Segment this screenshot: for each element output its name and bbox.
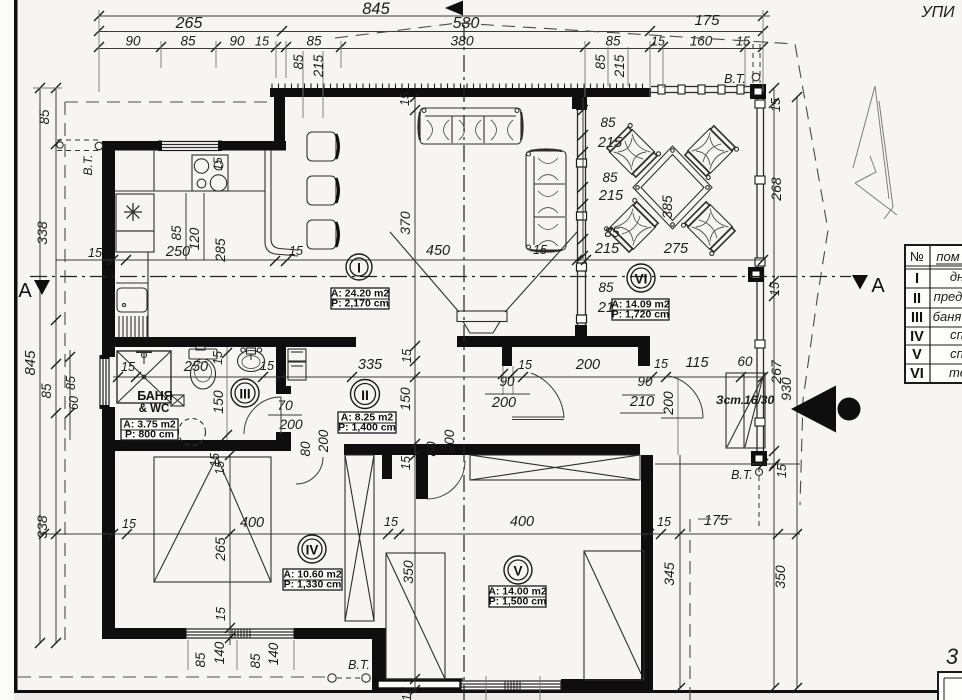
svg-text:P: 1,720 cm: P: 1,720 cm bbox=[612, 309, 670, 321]
svg-text:15: 15 bbox=[768, 282, 782, 296]
svg-text:15: 15 bbox=[122, 517, 136, 531]
svg-text:15: 15 bbox=[398, 92, 412, 106]
svg-text:те: те bbox=[949, 365, 962, 380]
svg-text:В.Т.: В.Т. bbox=[731, 468, 753, 482]
svg-text:150: 150 bbox=[210, 390, 226, 414]
svg-text:60: 60 bbox=[737, 354, 753, 369]
svg-text:370: 370 bbox=[397, 211, 413, 235]
svg-text:A: A bbox=[18, 280, 32, 302]
svg-text:IV: IV bbox=[306, 542, 319, 557]
svg-text:85: 85 bbox=[291, 54, 306, 70]
svg-text:A: A bbox=[871, 275, 885, 297]
svg-text:85: 85 bbox=[605, 34, 621, 49]
svg-text:V: V bbox=[912, 347, 922, 363]
svg-text:IV: IV bbox=[910, 329, 924, 345]
svg-text:350: 350 bbox=[772, 565, 788, 589]
svg-text:345: 345 bbox=[661, 562, 677, 586]
svg-text:265: 265 bbox=[212, 537, 228, 562]
svg-text:80: 80 bbox=[298, 441, 313, 457]
svg-text:пред: пред bbox=[934, 289, 962, 304]
svg-text:90: 90 bbox=[637, 374, 653, 389]
svg-text:сп: сп bbox=[950, 327, 962, 342]
svg-text:85: 85 bbox=[593, 54, 608, 70]
svg-text:II: II bbox=[361, 387, 369, 403]
svg-text:85: 85 bbox=[64, 376, 78, 390]
svg-text:215: 215 bbox=[594, 241, 620, 257]
svg-text:15: 15 bbox=[88, 246, 102, 260]
svg-text:160: 160 bbox=[690, 34, 713, 49]
svg-text:I: I bbox=[915, 271, 919, 287]
svg-text:120: 120 bbox=[187, 227, 202, 250]
svg-text:15: 15 bbox=[400, 687, 414, 700]
svg-text:№: № bbox=[910, 249, 924, 264]
svg-text:P: 1,500 cm: P: 1,500 cm bbox=[489, 596, 547, 608]
svg-text:85: 85 bbox=[39, 383, 54, 399]
svg-text:III: III bbox=[911, 310, 923, 326]
svg-text:В.Т.: В.Т. bbox=[348, 658, 370, 672]
svg-text:175: 175 bbox=[704, 513, 729, 529]
svg-text:400: 400 bbox=[510, 514, 534, 530]
svg-text:II: II bbox=[913, 291, 921, 307]
svg-text:& WC: & WC bbox=[139, 403, 170, 415]
svg-text:85: 85 bbox=[306, 34, 322, 49]
svg-text:90: 90 bbox=[499, 374, 515, 389]
svg-text:140: 140 bbox=[212, 641, 227, 664]
svg-text:85: 85 bbox=[602, 170, 618, 185]
svg-text:P: 1,330 cm: P: 1,330 cm bbox=[284, 579, 342, 591]
svg-text:15: 15 bbox=[214, 607, 228, 621]
svg-text:III: III bbox=[239, 386, 250, 401]
svg-text:дн: дн bbox=[950, 269, 962, 284]
svg-text:200: 200 bbox=[316, 429, 331, 453]
svg-text:VI: VI bbox=[635, 271, 648, 286]
svg-text:P: 800 cm: P: 800 cm bbox=[125, 429, 174, 441]
svg-text:15: 15 bbox=[260, 359, 274, 373]
svg-text:В.Т.: В.Т. bbox=[724, 72, 746, 86]
svg-text:845: 845 bbox=[362, 0, 390, 18]
svg-text:15: 15 bbox=[736, 35, 750, 49]
svg-text:200: 200 bbox=[575, 357, 600, 373]
svg-text:В.Т.: В.Т. bbox=[81, 155, 95, 176]
svg-text:15: 15 bbox=[211, 351, 225, 365]
svg-text:200: 200 bbox=[491, 395, 516, 411]
svg-text:VI: VI bbox=[910, 366, 924, 382]
svg-text:215: 215 bbox=[311, 54, 326, 78]
svg-text:140: 140 bbox=[266, 642, 281, 665]
svg-text:3: 3 bbox=[946, 644, 959, 669]
svg-text:215: 215 bbox=[598, 188, 624, 204]
svg-text:930: 930 bbox=[778, 377, 794, 401]
svg-text:85: 85 bbox=[180, 34, 196, 49]
svg-text:90: 90 bbox=[229, 34, 245, 49]
svg-text:P: 1,400 cm: P: 1,400 cm bbox=[338, 422, 396, 434]
svg-text:335: 335 bbox=[358, 357, 383, 373]
svg-text:115: 115 bbox=[685, 355, 709, 371]
svg-text:15: 15 bbox=[518, 358, 532, 372]
svg-text:15: 15 bbox=[399, 456, 413, 470]
svg-text:P: 2,170 cm: P: 2,170 cm bbox=[331, 298, 389, 310]
svg-text:200: 200 bbox=[278, 416, 303, 432]
svg-text:215: 215 bbox=[612, 54, 627, 78]
svg-text:85: 85 bbox=[37, 109, 52, 125]
svg-text:85: 85 bbox=[248, 653, 263, 669]
svg-text:150: 150 bbox=[397, 387, 413, 411]
svg-text:265: 265 bbox=[175, 15, 203, 32]
svg-text:285: 285 bbox=[212, 238, 228, 263]
svg-text:385: 385 bbox=[659, 195, 675, 219]
svg-text:70: 70 bbox=[277, 397, 293, 413]
svg-text:200: 200 bbox=[660, 391, 676, 416]
svg-text:210: 210 bbox=[629, 394, 654, 410]
svg-text:I: I bbox=[357, 260, 361, 275]
svg-text:845: 845 bbox=[22, 350, 39, 376]
svg-text:268: 268 bbox=[768, 177, 784, 202]
svg-text:80: 80 bbox=[424, 441, 439, 457]
svg-text:V: V bbox=[513, 563, 522, 578]
svg-text:85: 85 bbox=[169, 225, 184, 241]
svg-text:85: 85 bbox=[600, 115, 616, 130]
svg-text:380: 380 bbox=[450, 33, 474, 49]
svg-text:15: 15 bbox=[400, 349, 414, 363]
svg-text:338: 338 bbox=[34, 221, 50, 245]
svg-text:90: 90 bbox=[125, 34, 141, 49]
svg-text:200: 200 bbox=[442, 429, 457, 453]
svg-text:УПИ: УПИ bbox=[920, 4, 955, 21]
svg-text:15: 15 bbox=[657, 515, 671, 529]
svg-text:Зст.16/30: Зст.16/30 bbox=[716, 393, 775, 407]
svg-text:60: 60 bbox=[67, 396, 81, 410]
svg-text:15: 15 bbox=[384, 515, 398, 529]
svg-text:пом: пом bbox=[936, 249, 959, 264]
svg-text:баня: баня bbox=[933, 309, 962, 324]
svg-text:БАНЯ: БАНЯ bbox=[137, 389, 173, 403]
svg-text:15: 15 bbox=[769, 98, 783, 112]
svg-text:175: 175 bbox=[694, 12, 720, 29]
svg-text:275: 275 bbox=[663, 241, 689, 257]
svg-text:350: 350 bbox=[400, 560, 416, 584]
svg-text:450: 450 bbox=[426, 243, 450, 259]
svg-text:15: 15 bbox=[775, 464, 789, 478]
svg-text:15: 15 bbox=[654, 357, 668, 371]
svg-text:15: 15 bbox=[255, 35, 269, 49]
svg-text:85: 85 bbox=[193, 652, 208, 668]
svg-text:сп: сп bbox=[950, 346, 962, 361]
svg-text:85: 85 bbox=[598, 280, 614, 295]
